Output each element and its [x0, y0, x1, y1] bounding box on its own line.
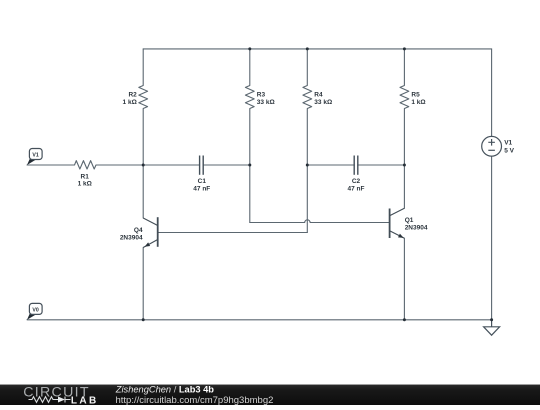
svg-text:V1: V1 [32, 152, 38, 158]
svg-text:33 kΩ: 33 kΩ [314, 99, 332, 106]
wire node B1 to C1 left plate [143, 164, 199, 166]
wire col1 top rail to R2 [142, 49, 144, 86]
svg-text:5 V: 5 V [504, 147, 514, 154]
svg-text:47 nF: 47 nF [348, 185, 365, 192]
label R3 value [257, 91, 275, 106]
junction bottom rail at Q4 emitter [142, 318, 145, 321]
junction top rail at R3 [248, 47, 251, 50]
junction mid rail at R5/Q1 collector [403, 164, 406, 167]
transistor Q4 [143, 217, 158, 247]
svg-text:http://circuitlab.com/cm7p9hg3: http://circuitlab.com/cm7p9hg3bmbg2 [116, 395, 274, 405]
resistor R5 [400, 86, 409, 109]
svg-text:2N3904: 2N3904 [405, 225, 428, 232]
wire col5 top rail to V1 source [491, 49, 493, 136]
wire col1 R2 bottom to Q4 collector [142, 109, 144, 219]
svg-text:R1: R1 [81, 174, 90, 181]
wire Q4 base run [158, 232, 308, 234]
wire top rail [143, 48, 491, 50]
wire col4 R5 bottom through C2 node to Q1 collector [403, 109, 405, 209]
resistor R2 [139, 86, 148, 109]
svg-text:V0: V0 [32, 307, 38, 313]
junction bottom rail at ground [490, 318, 493, 321]
wire col4 Q1 emitter to bottom rail [403, 238, 405, 319]
label C2 value [348, 178, 365, 192]
svg-text:ZishengChen / Lab3 4b: ZishengChen / Lab3 4b [115, 384, 215, 394]
wire col3 top rail to R4 [306, 49, 308, 86]
label R2 value [123, 91, 138, 106]
junction top rail at R4 [306, 47, 309, 50]
svg-text:R3: R3 [257, 91, 266, 98]
svg-text:C1: C1 [198, 178, 207, 185]
svg-text:1 kΩ: 1 kΩ [123, 99, 137, 106]
logo resistor-diode line [29, 397, 71, 403]
svg-text:C2: C2 [352, 178, 361, 185]
svg-text:33 kΩ: 33 kΩ [257, 99, 275, 106]
wire col2 down to Q1 base level [249, 165, 251, 223]
transistor Q1 [390, 208, 405, 238]
svg-text:R2: R2 [128, 91, 137, 98]
junction top rail at R5 [403, 47, 406, 50]
label R1 value [78, 174, 92, 188]
label Q4 type [120, 227, 143, 241]
svg-text:Q1: Q1 [405, 217, 414, 224]
wire col1 Q4 emitter to bottom rail [142, 248, 144, 320]
svg-text:LAB: LAB [71, 395, 99, 405]
label C1 value [193, 178, 210, 192]
junction mid rail at R4 [306, 164, 309, 167]
wire R1 to node B1 [96, 164, 143, 166]
svg-text:1 kΩ: 1 kΩ [78, 181, 92, 188]
wire Q1 base run with hop over col3 [250, 220, 390, 223]
capacitor C2 [354, 156, 358, 175]
svg-text:2N3904: 2N3904 [120, 234, 143, 241]
svg-text:V1: V1 [504, 139, 512, 146]
wire col3 R4 bottom to mid node [306, 109, 308, 166]
voltage source V1 [482, 136, 502, 156]
wire C2 right plate to node B3 [358, 164, 405, 166]
wire node B2 to C2 left plate [307, 164, 354, 166]
svg-text:R5: R5 [411, 91, 420, 98]
label R5 value [411, 91, 425, 106]
junction mid rail at R2/Q4 collector [142, 164, 145, 167]
label R4 value [314, 91, 332, 106]
svg-text:Q4: Q4 [134, 227, 143, 234]
resistor R1 [75, 161, 97, 169]
junction bottom rail at Q1 emitter [403, 318, 406, 321]
label V1 value [504, 139, 514, 154]
wire V1 input to R1 [27, 164, 75, 166]
wire C1 right plate to node B2 [203, 164, 250, 166]
svg-text:1 kΩ: 1 kΩ [411, 99, 425, 106]
node V1 flag [27, 149, 42, 166]
resistor R3 [245, 86, 254, 109]
capacitor C1 [200, 156, 204, 175]
node V0 flag [27, 303, 42, 319]
wire col2 R3 bottom to mid node [249, 109, 251, 166]
Q1 emitter arrow [398, 234, 404, 238]
ground [484, 320, 500, 335]
label Q1 type [405, 217, 428, 232]
wire col2 top rail to R3 [249, 49, 251, 86]
svg-text:47 nF: 47 nF [193, 185, 210, 192]
junction mid rail at R3 [248, 164, 251, 167]
svg-text:R4: R4 [314, 91, 323, 98]
Q4 emitter arrow [145, 242, 151, 246]
wire col3 down to Q4 base level [306, 165, 308, 233]
wire col4 top rail to R5 [403, 49, 405, 86]
wire bottom rail [27, 319, 492, 321]
wire col5 V1 source to bottom rail [491, 156, 493, 320]
resistor R4 [303, 86, 312, 109]
